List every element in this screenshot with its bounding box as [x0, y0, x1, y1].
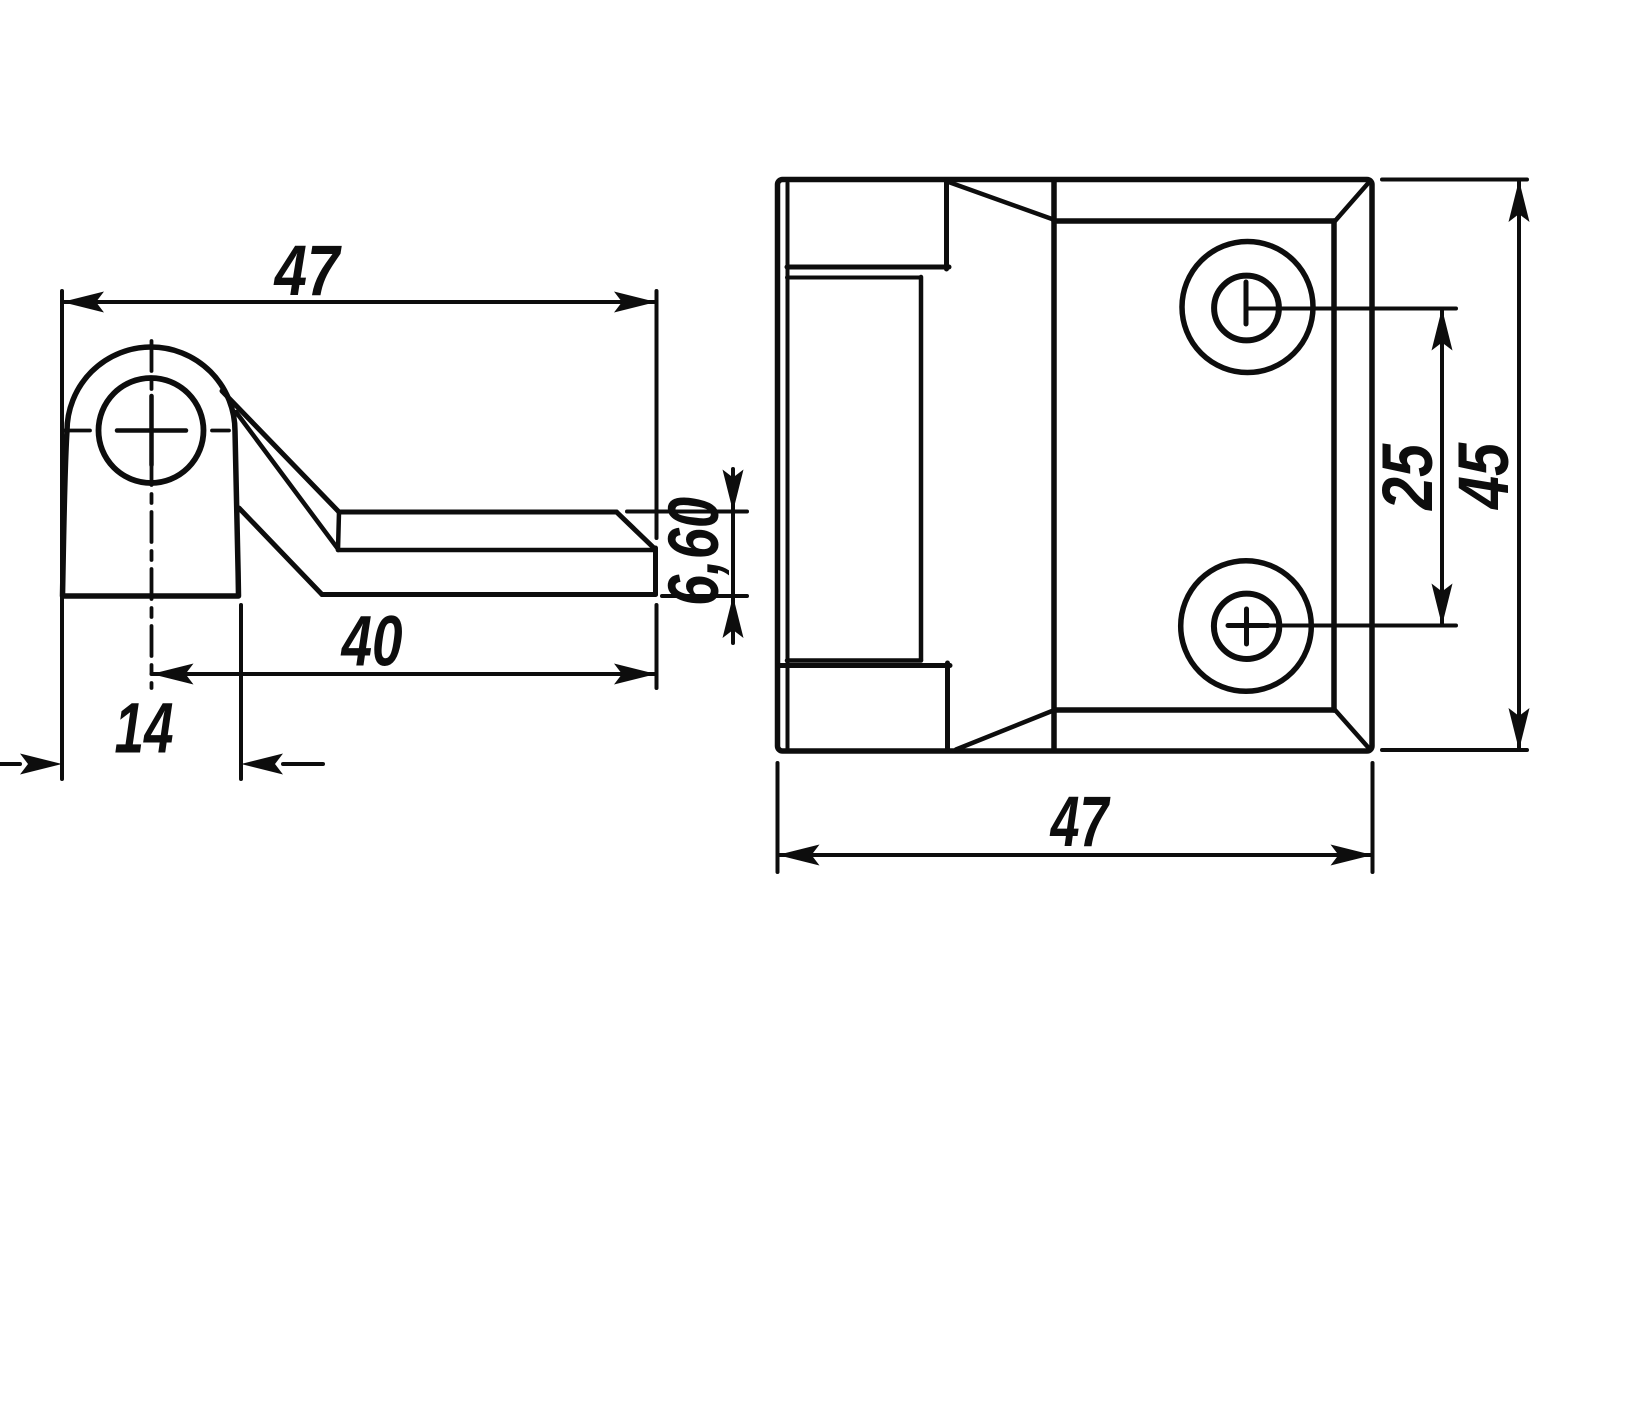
front view: bottom-right chamfer diagonal: [1335, 710, 1371, 750]
dim 14: left arrowhead (outside, pointing right): [20, 754, 62, 775]
dim 25: bottom arrowhead (pointing down): [1432, 584, 1453, 626]
side view: arm inner diagonal: [236, 412, 338, 549]
side view: hole cross vertical bar: [149, 396, 154, 465]
front view: flange inner edge: [919, 277, 924, 660]
dim 6,60: top extension line: [627, 510, 747, 514]
front view: lower hole outer circle: [1181, 561, 1312, 692]
svg-text:40: 40: [340, 603, 403, 682]
front view: top inner step line: [787, 276, 921, 280]
front view: left flange edge line: [786, 183, 790, 748]
svg-text:6,60: 6,60: [655, 497, 734, 606]
side view: horizontal centerline right dash: [212, 429, 229, 433]
dim 47 bottom: left extension line: [776, 763, 780, 872]
dim 47 top: dimension line: [62, 300, 656, 304]
svg-text:47: 47: [273, 232, 343, 311]
side view: horizontal centerline left dash: [64, 429, 90, 433]
front view: bottom tab top line: [779, 663, 950, 668]
front view: top-right chamfer diagonal: [1335, 181, 1371, 222]
front view: upper hole center vertical bar: [1244, 282, 1249, 324]
dim 40: dimension line: [152, 672, 657, 676]
dim 47 top: left extension line: [60, 291, 64, 779]
dim 40: left arrowhead: [152, 664, 194, 685]
svg-text:14: 14: [115, 690, 174, 769]
front view: bottom tab right edge: [945, 663, 950, 749]
dim 40: right arrowhead: [614, 664, 656, 685]
side view: arm right end edge: [653, 548, 658, 595]
dim 45: bottom extension line: [1382, 748, 1527, 752]
front view: lower hole inner circle: [1214, 594, 1279, 659]
dim 14: right arrowhead (outside, pointing left): [241, 754, 283, 775]
dim 47 bottom: right extension line: [1371, 763, 1375, 872]
side view: arm right bevel: [617, 512, 656, 550]
side view: arm left end edge: [338, 512, 339, 550]
dim 45: dimension line: [1517, 180, 1521, 750]
front view: lower hole cross vertical bar: [1244, 609, 1249, 644]
side view: vertical centerline: [150, 341, 154, 688]
front view: bottom inner step line: [787, 658, 921, 663]
side view: hole circle: [99, 378, 204, 483]
front view: top tab bottom line: [787, 265, 949, 270]
front view: inner frame right edge: [1331, 221, 1337, 710]
front view: upper hole center extension line: [1246, 307, 1456, 311]
side view: arm bottom line: [322, 592, 656, 597]
side view: arm top edge diagonal: [222, 391, 339, 512]
side view: arm bottom diagonal: [239, 508, 322, 595]
side view: hole cross horizontal bar: [117, 428, 186, 433]
dim 6,60: dimension line: [731, 469, 735, 643]
side view: arm top surface top line: [339, 510, 617, 515]
dim 14: left shaft: [0, 762, 20, 766]
front view: top-left chamfer diagonal: [950, 183, 1052, 220]
dim 47 bottom: left arrowhead: [778, 845, 820, 866]
front view: lower hole cross horizontal bar: [1228, 623, 1268, 628]
front view: lower hole center extension line: [1268, 624, 1456, 628]
side view: arm top surface bottom line: [338, 548, 653, 553]
front view: inner frame bottom edge: [1054, 707, 1334, 713]
front view: bottom-left chamfer diagonal: [956, 711, 1052, 750]
svg-text:45: 45: [1445, 442, 1524, 511]
dim 47 bottom: right arrowhead: [1331, 845, 1373, 866]
dim 45: bottom arrowhead (pointing down): [1509, 708, 1530, 750]
dim 25: dimension line: [1440, 309, 1444, 626]
dim 47 top: right extension line: [655, 291, 659, 538]
front view: outer plate outline: [778, 180, 1373, 752]
dim 6,60: top arrowhead (outside, pointing down): [723, 470, 744, 512]
dim 25: top arrowhead (pointing up): [1432, 309, 1453, 351]
side view: lug outline: [63, 347, 239, 596]
svg-text:25: 25: [1369, 443, 1448, 512]
dim 6,60: bottom arrowhead (outside, pointing up): [723, 596, 744, 638]
dim 6,60: bottom extension line: [662, 594, 747, 598]
front view: inner frame top edge: [1054, 218, 1334, 224]
front view: top tab right edge: [944, 181, 949, 269]
front view: upper hole outer circle: [1182, 242, 1313, 373]
dim 14: right shaft: [283, 762, 323, 766]
dim 40: right extension line: [655, 605, 659, 688]
front view: fold line: [1051, 181, 1057, 749]
front view: upper hole inner circle: [1214, 276, 1279, 341]
dim 47 top: left arrowhead: [62, 292, 104, 313]
dim 47 bottom: dimension line: [778, 853, 1373, 857]
dim 45: top arrowhead (pointing up): [1509, 180, 1530, 222]
dim 47 top: right arrowhead: [614, 292, 656, 313]
svg-text:47: 47: [1049, 783, 1111, 862]
dim 14: right extension line: [239, 605, 243, 779]
dim 45: top extension line: [1382, 178, 1527, 182]
